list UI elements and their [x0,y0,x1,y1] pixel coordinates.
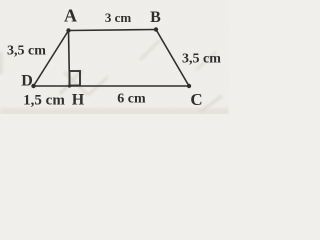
watermark stroke 2 [64,72,88,95]
vertex dot A [66,28,70,32]
watermark stroke 6 [200,96,222,112]
watermark stroke 1 [60,70,82,94]
paper grain overlay [0,0,229,114]
watermark stroke 3 [88,77,108,95]
vertex dot D [31,84,35,88]
segment AB (top side) [69,30,157,31]
segment DC (bottom side through H) [34,85,190,87]
scan smudge left edge [0,52,3,74]
scan shadow bottom strip [0,108,229,116]
segment BC (right side) [156,30,189,87]
watermark stroke 4 [140,40,160,60]
right-angle marker at H [70,71,81,86]
vertex dot B [154,27,158,31]
watermark stroke 5 [196,52,216,70]
paper background [0,0,229,114]
vertex dot C [187,84,191,88]
segment DA (left side) [34,31,69,87]
segment AH (height) [69,31,70,87]
vertex dot H [68,84,71,87]
